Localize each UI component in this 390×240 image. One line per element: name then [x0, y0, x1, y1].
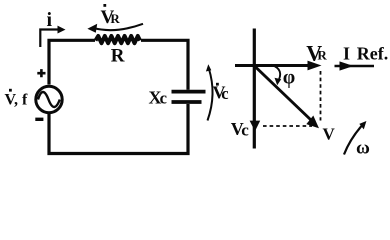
svg-text:φ: φ: [283, 67, 295, 89]
svg-text:R: R: [110, 11, 120, 26]
svg-text:V, f: V, f: [5, 92, 28, 109]
svg-text:ω: ω: [356, 138, 370, 159]
svg-text:c: c: [221, 84, 228, 103]
svg-text:c: c: [160, 89, 167, 108]
svg-text:Ref.: Ref.: [357, 43, 388, 63]
svg-text:I: I: [343, 43, 350, 63]
svg-text:R: R: [317, 48, 327, 63]
svg-text:V: V: [323, 125, 336, 144]
svg-text:R: R: [111, 46, 125, 67]
svg-text:c: c: [241, 121, 249, 140]
svg-text:i: i: [47, 9, 53, 31]
